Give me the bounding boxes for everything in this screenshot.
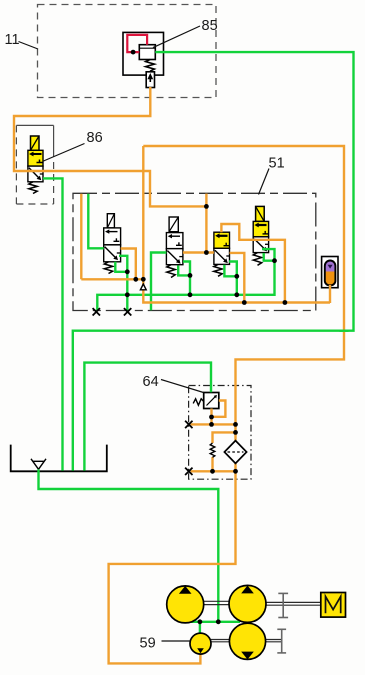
valve V1 (leftmost in 51) actuator [107, 214, 114, 228]
wire: green feed into valve V1 left port [88, 194, 103, 249]
wire: valve V3 bottom hook [224, 265, 236, 277]
wire: valve V2 drop to return bus [189, 275, 191, 294]
wire: main pressure arch to filter group [143, 146, 344, 441]
accumulator [322, 257, 338, 288]
wire: drop from box 51 edge to pressure bus [80, 194, 82, 279]
valve V2 spring [167, 265, 175, 278]
wire: accumulator stub [329, 285, 331, 303]
svg-text:59: 59 [140, 636, 156, 652]
wire: valve V3 right port drop [230, 253, 245, 303]
test point X4 [185, 468, 192, 475]
label 86 [44, 130, 103, 161]
wire: valve V3 corner hook [229, 262, 237, 277]
wire: valve V3 drop to return bus [236, 276, 238, 295]
test point X3 [185, 421, 192, 428]
coupling upper [278, 593, 288, 617]
wire: green return bus inside box 51 [97, 261, 274, 311]
wire: valve V4 corner hook [262, 249, 275, 261]
drain arrow on pressure leg [140, 284, 146, 290]
wire: valve 64 bypass loop [212, 401, 226, 417]
svg-text:11: 11 [5, 32, 20, 48]
svg-text:64: 64 [143, 374, 159, 390]
wire: green return to tank / branch to valve 64 [84, 363, 211, 471]
enclosure box around valve 86 [16, 125, 53, 204]
pressure reducing valve 85 outer block [123, 32, 164, 75]
valve V4 body [253, 221, 268, 252]
label 51 [259, 156, 285, 195]
wire: valve 64 outlet [210, 409, 212, 425]
test point X1 [93, 308, 100, 315]
valve V3 body (pilot operated) [214, 232, 230, 264]
valve V4 solenoid [256, 206, 265, 221]
wire: pump pressure line loop to small pump [109, 463, 236, 663]
valve V2 body [166, 233, 183, 265]
valve V2 actuator [169, 217, 178, 232]
wire: valve V1 bottom hook [115, 262, 127, 272]
pump P3 [229, 623, 265, 659]
wire: valve V2 corner hook [183, 262, 190, 276]
coupling lower [277, 629, 286, 653]
label 64 [143, 374, 204, 393]
valve 85 spring [146, 60, 155, 72]
pump P2 [229, 585, 266, 622]
pump 59 (small) [190, 633, 211, 654]
wire: pump inlet manifold [191, 621, 240, 623]
wire: tank suction line to pump [39, 469, 219, 622]
valve 85 body [139, 45, 155, 60]
svg-text:85: 85 [202, 18, 218, 34]
subassembly box 64 (dash-dot) [189, 386, 251, 480]
valve V1 body [104, 228, 121, 262]
test point X2 [124, 308, 131, 315]
wire: valve V2 to valve V3 left port [183, 251, 214, 253]
wire: valve V1 corner hook [119, 256, 127, 272]
electric motor M [321, 593, 346, 618]
suction strainer [31, 459, 46, 470]
wire: orange drop from box 51 edge to valve V2/V3 line [205, 194, 207, 253]
valve V1 spring [104, 262, 112, 274]
label 85 [153, 18, 218, 48]
wire: upper test line in box 64 [191, 423, 236, 425]
valve V4 spring [253, 253, 261, 266]
wire: lower test line in box 64 [191, 470, 236, 472]
wire: green return overpass at orange leg [340, 330, 349, 332]
filter F1 (diamond) [224, 441, 246, 464]
wire: valve V3 pilot loop to valve V4 and drop to accumulator bus [221, 224, 285, 303]
relief valve 64 body [204, 393, 219, 409]
wire: pressure bus in box 51 [81, 278, 143, 280]
wire: valve V2 bottom hook [178, 266, 190, 276]
wire: orange pilot line from valve 85 around to main gallery [14, 87, 206, 206]
check valve spring in box 64 [210, 443, 215, 457]
label 59 [140, 636, 191, 652]
valve V3 spring [214, 264, 222, 276]
wire: green return from valve 86 down to tank [43, 178, 63, 470]
wire: check valve branch in box 64 [213, 432, 236, 443]
solenoid valve 86 [28, 136, 43, 182]
label 11 [5, 32, 39, 49]
wire: green pilot supply from valve 85 to right side and down to tank return [73, 52, 354, 471]
svg-text:86: 86 [87, 130, 103, 146]
valve 86 spring [29, 182, 37, 194]
wire: valve V1 right port drop [121, 249, 136, 280]
wire: valve V4 bottom hook [264, 253, 275, 261]
wire: valve V1 drain drop to test point [126, 272, 128, 311]
pump P1 [167, 586, 204, 623]
tank T1 [11, 445, 107, 472]
valve 85 drain element [146, 72, 154, 88]
enclosure box 11 (dashed) [38, 5, 217, 98]
wire: valve V2 left port line [151, 253, 166, 311]
manifold box 51 (dashed) [73, 193, 316, 310]
wire: red pilot sensing line of valve 85 [127, 35, 147, 52]
wire: drop to small pump inlet [199, 622, 201, 635]
relief valve 64 spring [193, 399, 204, 405]
wire: arch left leg down to accumulator bus [143, 146, 330, 303]
svg-text:51: 51 [269, 156, 285, 172]
shaft pump to motor (double lines) [204, 601, 321, 642]
